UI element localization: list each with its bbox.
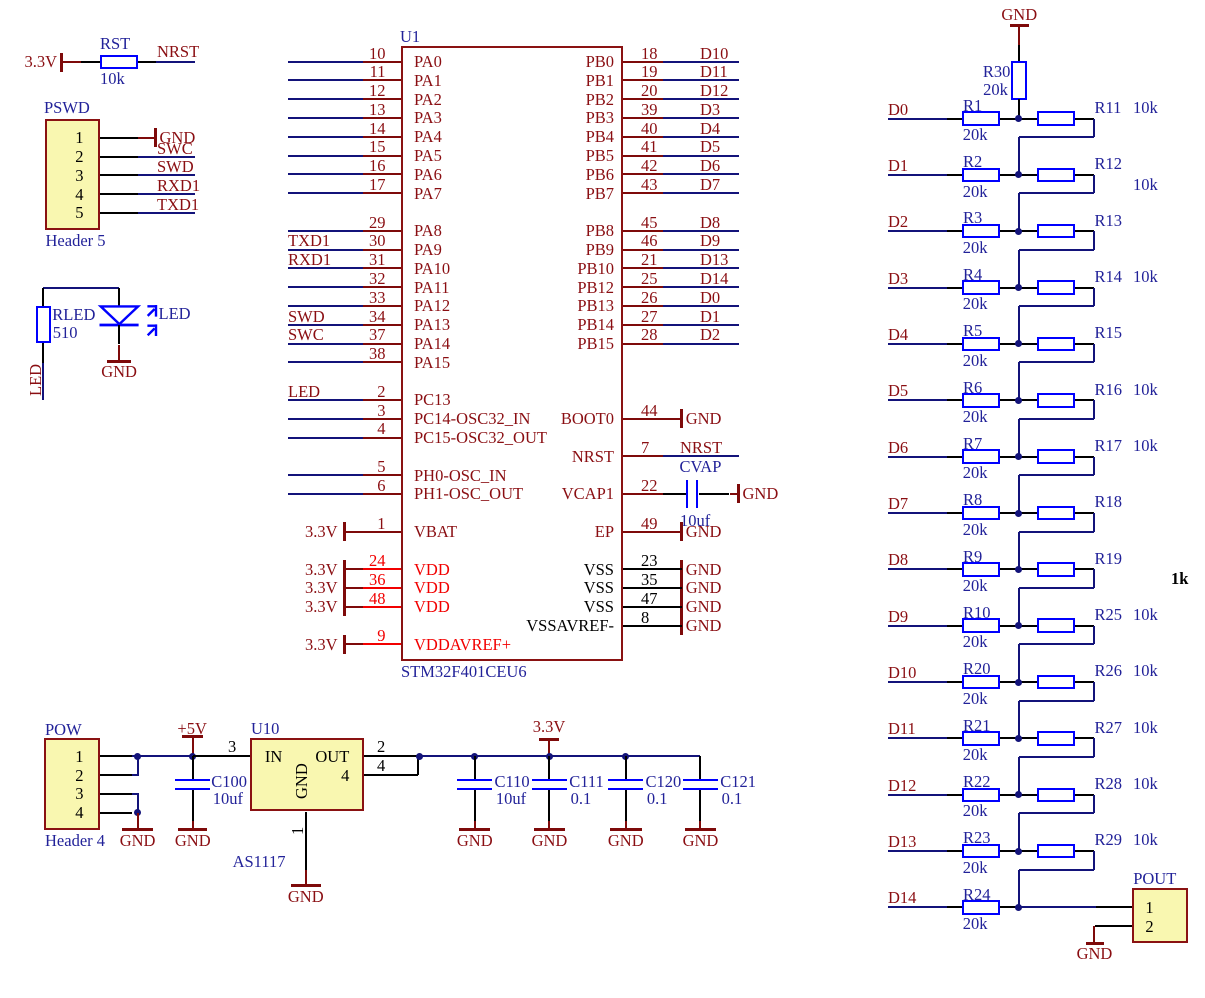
- wire: [947, 456, 963, 458]
- pin 48 (VDD) of U1: [369, 591, 386, 608]
- wire: [138, 61, 157, 63]
- wire: [138, 156, 195, 158]
- net label LED (rotated): [28, 364, 45, 396]
- net label D10: [700, 46, 728, 63]
- pin 24 (VDD) of U1: [369, 553, 386, 570]
- wire: [1018, 644, 1020, 682]
- pin 8 (VSSAVREF-) of U1: [641, 610, 649, 627]
- pin 15 (PA5) of U1: [369, 139, 386, 156]
- wire: [1093, 231, 1095, 250]
- net label D11: [700, 64, 728, 81]
- resistor R5 20k: [962, 337, 1000, 352]
- resistor R25 10k: [1037, 618, 1075, 633]
- wire: [947, 906, 963, 908]
- resistor R12 10k: [1037, 168, 1075, 183]
- pin 5 of PSWD: [75, 205, 83, 222]
- resistor R19 10k: [1037, 562, 1075, 577]
- wire: [132, 793, 139, 795]
- pin 4 of POW: [75, 805, 83, 822]
- wire: [947, 512, 963, 514]
- net label D5: [700, 139, 720, 156]
- wire: [1000, 568, 1037, 570]
- resistor R1 20k: [962, 111, 1000, 126]
- net label D12: [888, 778, 916, 795]
- wire: [663, 136, 739, 138]
- pin 1 of U10: [290, 827, 307, 835]
- net label D7: [700, 177, 720, 194]
- power symbol 3.3V (rail): [533, 719, 566, 736]
- wire: [1018, 419, 1020, 457]
- resistor R28 10k: [1037, 788, 1075, 803]
- junction node 3: [1015, 228, 1022, 235]
- pin 45 (PB8) of U1: [641, 215, 658, 232]
- wire: [1018, 475, 1020, 513]
- wire: [663, 267, 739, 269]
- junction: [189, 753, 196, 760]
- wire: [138, 212, 195, 214]
- wire: [1093, 513, 1095, 532]
- pin 19 (PB1) of U1: [641, 64, 658, 81]
- pin 23 (VSS) of U1: [641, 553, 658, 570]
- net label D2: [700, 327, 720, 344]
- junction node 15: [1015, 904, 1022, 911]
- pin 46 (PB9) of U1: [641, 233, 658, 250]
- wire: [663, 79, 739, 81]
- connector PSWD (Header 5): [44, 100, 90, 117]
- wire: [888, 906, 947, 908]
- power symbol 3.3V (VDDAVREF+): [305, 637, 338, 654]
- wire: [1019, 700, 1095, 702]
- label GND: [686, 599, 722, 616]
- wire: [192, 790, 194, 821]
- wire: [699, 790, 701, 821]
- wire: [625, 790, 627, 821]
- wire: [1018, 757, 1020, 795]
- power symbol +5V: [177, 721, 206, 738]
- net label D9: [700, 233, 720, 250]
- wire: [947, 287, 963, 289]
- wire: [1093, 569, 1095, 588]
- pin 2 (PC13) of U1: [377, 384, 385, 401]
- net label D1: [700, 309, 720, 326]
- net label D1: [888, 158, 908, 175]
- wire: [947, 625, 963, 627]
- resistor R4 20k: [962, 280, 1000, 295]
- wire: [288, 173, 363, 175]
- wire: [1075, 456, 1094, 458]
- wire: [1000, 850, 1037, 852]
- pin 29 (PA8) of U1: [369, 215, 386, 232]
- wire: [118, 288, 120, 306]
- wire: [288, 286, 363, 288]
- net wire LED (to resistor): [42, 363, 44, 400]
- wire: [1018, 250, 1020, 288]
- pin 9 (VDDAVREF+) of U1: [377, 628, 385, 645]
- pin 1 of PSWD: [75, 130, 83, 147]
- wire: [1018, 813, 1020, 851]
- wire: [1093, 288, 1095, 307]
- wire: [1000, 174, 1037, 176]
- wire: [1019, 249, 1095, 251]
- wire: [1000, 287, 1037, 289]
- wire: [288, 361, 363, 363]
- resistor R16 10k: [1037, 393, 1075, 408]
- wire: [888, 456, 947, 458]
- wire: [288, 343, 363, 345]
- power symbol 3.3V rail bar (VDD pins): [343, 560, 346, 617]
- wire: [1019, 531, 1095, 533]
- label 3.3V: [305, 562, 338, 579]
- wire: [1000, 737, 1037, 739]
- resistor R22 20k: [962, 788, 1000, 803]
- wire: [1000, 906, 1037, 908]
- wire: [288, 79, 363, 81]
- net label SWC: [157, 141, 193, 158]
- junction node 5: [1015, 340, 1022, 347]
- wire: [417, 756, 419, 775]
- pin 27 (PB14) of U1: [641, 309, 658, 326]
- wire: [1018, 45, 1020, 61]
- wire: [288, 136, 363, 138]
- wire: [81, 61, 100, 63]
- pin 18 (PB0) of U1: [641, 46, 658, 63]
- wire: [888, 343, 947, 345]
- wire: [474, 790, 476, 821]
- pin 3 of PSWD: [75, 168, 83, 185]
- wire: [193, 755, 251, 757]
- wire: [1000, 456, 1037, 458]
- wire: [1019, 136, 1095, 138]
- ground symbol (CVAP): [730, 493, 739, 495]
- wire: [1019, 305, 1095, 307]
- net label TXD1: [157, 197, 199, 214]
- wire: [42, 288, 44, 306]
- ground symbol (C100): [192, 821, 194, 830]
- wire: [42, 343, 44, 363]
- wire: [947, 230, 963, 232]
- junction: [134, 809, 141, 816]
- wire: [663, 493, 686, 495]
- wire: [288, 117, 363, 119]
- wire: [1075, 568, 1094, 570]
- pin 11 (PA1) of U1: [370, 64, 386, 81]
- net label RXD1: [157, 178, 200, 195]
- label 1k: [1171, 571, 1188, 588]
- resistor R15 10k: [1037, 337, 1075, 352]
- pin 25 (PB12) of U1: [641, 271, 658, 288]
- junction node 6: [1015, 397, 1022, 404]
- wire: [1000, 230, 1037, 232]
- wire: [1000, 399, 1037, 401]
- wire: [663, 192, 739, 194]
- junction node 10: [1015, 622, 1022, 629]
- resistor R9 20k: [962, 562, 1000, 577]
- net label D4: [700, 121, 720, 138]
- net label D13: [888, 834, 916, 851]
- wire: [1019, 474, 1095, 476]
- wire: [288, 305, 363, 307]
- net label D0: [700, 290, 720, 307]
- pin 20 (PB2) of U1: [641, 83, 658, 100]
- wire: [118, 325, 120, 345]
- wire: [1075, 625, 1094, 627]
- wire: [1093, 344, 1095, 363]
- wire: [663, 98, 739, 100]
- pin 26 (PB13) of U1: [641, 290, 658, 307]
- pin 4 of PSWD: [75, 187, 83, 204]
- pin 7 (NRST) of U1: [641, 440, 649, 457]
- wire: [1093, 457, 1095, 476]
- wire: [947, 118, 963, 120]
- wire: [888, 287, 947, 289]
- wire: [888, 399, 947, 401]
- ground symbol (C121): [699, 821, 701, 830]
- label 3.3V: [305, 599, 338, 616]
- pin 4 of U10: [377, 758, 385, 775]
- ground symbol (R30): [1001, 7, 1037, 24]
- pin 31 (PA10) of U1: [369, 252, 386, 269]
- wire: [663, 249, 739, 251]
- pin 17 (PA7) of U1: [369, 177, 386, 194]
- wire: [1018, 701, 1020, 739]
- wire: [1000, 343, 1037, 345]
- power symbol 3.3V (RST pull-up): [25, 54, 58, 71]
- junction node 1: [1015, 115, 1022, 122]
- resistor R7 20k: [962, 449, 1000, 464]
- net label D9: [888, 609, 908, 626]
- wire: [288, 230, 363, 232]
- pin 1 of POW: [75, 749, 83, 766]
- pin 36 (VDD) of U1: [369, 572, 386, 589]
- label 3.3V: [305, 580, 338, 597]
- pin 2 of POW: [75, 768, 83, 785]
- resistor R2 20k: [962, 168, 1000, 183]
- wire: [1075, 174, 1094, 176]
- pin 28 (PB15) of U1: [641, 327, 658, 344]
- wire: [288, 399, 363, 401]
- wire: [888, 230, 947, 232]
- net label D4: [888, 327, 908, 344]
- wire: [699, 493, 730, 495]
- wire: [1075, 118, 1094, 120]
- node NRST net wire: [156, 61, 195, 63]
- wire: [1000, 681, 1037, 683]
- wire: [288, 267, 363, 269]
- junction node 13: [1015, 791, 1022, 798]
- pin 39 (PB3) of U1: [641, 102, 658, 119]
- wire: [1075, 287, 1094, 289]
- wire: [288, 493, 363, 495]
- pin 10 (PA0) of U1: [369, 46, 386, 63]
- wire: [888, 850, 947, 852]
- regulator U10 AS1117: [251, 721, 279, 738]
- wire: [663, 117, 739, 119]
- wire: [663, 305, 739, 307]
- ground symbol (POW): [137, 813, 139, 830]
- resistor R10 20k: [962, 618, 1000, 633]
- resistor R13 10k: [1037, 224, 1075, 239]
- wire: [947, 850, 963, 852]
- wire: [947, 794, 963, 796]
- wire: [1075, 794, 1094, 796]
- wire: [138, 193, 195, 195]
- wire: [1019, 587, 1095, 589]
- junction node 11: [1015, 679, 1022, 686]
- resistor R18 10k: [1037, 506, 1075, 521]
- wire: [663, 343, 739, 345]
- wire: [888, 568, 947, 570]
- resistor R11 10k: [1037, 111, 1075, 126]
- wire: [1019, 643, 1095, 645]
- wire: [1019, 906, 1096, 908]
- wire: [663, 324, 739, 326]
- pin 1 of POUT: [1145, 900, 1153, 917]
- wire: [1075, 681, 1094, 683]
- label GND: [686, 618, 722, 635]
- junction node 9: [1015, 566, 1022, 573]
- capacitor C121 0.1: [699, 756, 701, 779]
- wire: [1018, 362, 1020, 400]
- net label NRST: [680, 440, 722, 457]
- ground symbol (LED): [118, 345, 120, 362]
- label LED (diode designator): [159, 306, 191, 323]
- wire: [1018, 532, 1020, 570]
- wire: [947, 681, 963, 683]
- resistor R30 20k: [1011, 61, 1027, 100]
- wire: [288, 192, 363, 194]
- net label SWD: [288, 309, 325, 326]
- wire: [1075, 230, 1094, 232]
- wire: [1075, 737, 1094, 739]
- junction node 14: [1015, 848, 1022, 855]
- pin 16 (PA6) of U1: [369, 158, 386, 175]
- wire: [1093, 738, 1095, 757]
- net label D13: [700, 252, 728, 269]
- wire: [1075, 850, 1094, 852]
- pin 40 (PB4) of U1: [641, 121, 658, 138]
- net label TXD1: [288, 233, 330, 250]
- wire: [1000, 118, 1037, 120]
- pin 33 (PA12) of U1: [369, 290, 386, 307]
- pin 2 of POUT: [1145, 919, 1153, 936]
- wire: [1018, 193, 1020, 231]
- resistor R24 20k: [962, 900, 1000, 915]
- net label NRST: [157, 44, 199, 61]
- wire: [137, 794, 139, 813]
- pin 41 (PB5) of U1: [641, 139, 658, 156]
- pin 47 (VSS) of U1: [641, 591, 658, 608]
- wire: [1018, 99, 1020, 118]
- wire: [947, 174, 963, 176]
- pin 2 of U10: [377, 739, 385, 756]
- wire: [888, 512, 947, 514]
- pin 49 (EP) of U1: [641, 516, 658, 533]
- wire: [138, 174, 195, 176]
- wire: [663, 455, 739, 457]
- pin 38 (PA15) of U1: [369, 346, 386, 363]
- wire: [1093, 400, 1095, 419]
- pin 1 (VBAT) of U1: [377, 516, 385, 533]
- pin 2 of PSWD: [75, 149, 83, 166]
- wire: [663, 286, 739, 288]
- wire: [947, 399, 963, 401]
- wire: [1000, 512, 1037, 514]
- pin 32 (PA11) of U1: [369, 271, 386, 288]
- connector POUT: [1133, 871, 1176, 888]
- ground symbol (C110): [474, 821, 476, 830]
- pin 30 (PA9) of U1: [369, 233, 386, 250]
- wire: [1075, 512, 1094, 514]
- wire: [132, 774, 139, 776]
- wire: [888, 737, 947, 739]
- net label RXD1: [288, 252, 331, 269]
- net label D8: [700, 215, 720, 232]
- wire: [663, 173, 739, 175]
- wire: [1019, 192, 1095, 194]
- wire: [1093, 119, 1095, 138]
- junction node 2: [1015, 171, 1022, 178]
- wire: [663, 155, 739, 157]
- wire: [1093, 175, 1095, 194]
- LED diode D? symbol: [96, 300, 166, 344]
- net wire 3.3V rail: [417, 755, 700, 757]
- wire: [1018, 306, 1020, 344]
- wire: [1000, 794, 1037, 796]
- net label D6: [700, 158, 720, 175]
- wire: [288, 418, 363, 420]
- wire: [1075, 343, 1094, 345]
- net label D11: [888, 721, 916, 738]
- wire: [288, 437, 363, 439]
- ground symbol (POUT): [1093, 926, 1095, 943]
- wire: [663, 61, 739, 63]
- net label D14: [700, 271, 728, 288]
- resistor R6 20k: [962, 393, 1000, 408]
- net label D5: [888, 383, 908, 400]
- pin 21 (PB10) of U1: [641, 252, 658, 269]
- wire: [288, 474, 363, 476]
- pin 3 of U10: [228, 739, 236, 756]
- resistor RST: [100, 55, 138, 70]
- wire: [63, 61, 81, 63]
- resistor R29 10k: [1037, 844, 1075, 859]
- pin 44 (BOOT0) of U1: [641, 403, 658, 420]
- pin 4 (PC15-OSC32_OUT) of U1: [377, 421, 385, 438]
- net label D6: [888, 440, 908, 457]
- wire: [888, 794, 947, 796]
- wire: [1093, 626, 1095, 645]
- junction: [471, 753, 478, 760]
- net label D3: [888, 271, 908, 288]
- wire: [888, 681, 947, 683]
- wire: [288, 61, 363, 63]
- pin 35 (VSS) of U1: [641, 572, 658, 589]
- label GND: [686, 562, 722, 579]
- junction: [416, 753, 423, 760]
- wire: [1096, 906, 1132, 908]
- label GND: [686, 580, 722, 597]
- junction node 7: [1015, 453, 1022, 460]
- wire: [1093, 682, 1095, 701]
- wire: [43, 287, 119, 289]
- pin 43 (PB7) of U1: [641, 177, 658, 194]
- net label D7: [888, 496, 908, 513]
- wire: [888, 625, 947, 627]
- capacitor C111 0.1: [548, 756, 550, 779]
- wire: [888, 118, 947, 120]
- ground symbol (C120): [625, 821, 627, 830]
- ground symbol (C111): [548, 821, 550, 830]
